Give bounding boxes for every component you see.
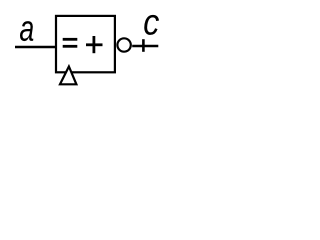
input wire (net a) — [15, 46, 56, 49]
output wire (net c) — [132, 45, 158, 48]
plus sign (function label) — [86, 36, 103, 53]
equals sign (function label) — [63, 38, 78, 48]
clock triangle on bottom edge — [60, 67, 76, 85]
node a label — [20, 21, 33, 41]
polarity tick on output wire — [142, 39, 145, 52]
inversion bubble — [117, 38, 130, 51]
node c label — [144, 15, 159, 35]
component box U1 — [56, 16, 115, 72]
